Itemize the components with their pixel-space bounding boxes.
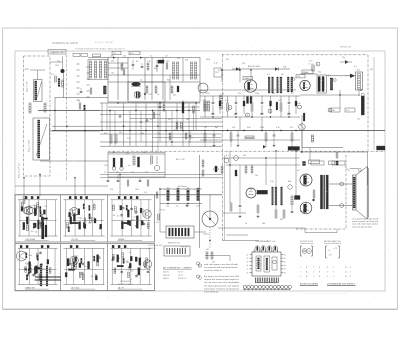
elco gap parts — [156, 214, 159, 224]
tuner rotated label 2 — [29, 139, 31, 152]
lower wire v276 — [275, 151, 277, 210]
svg-text:47k: 47k — [173, 95, 176, 97]
b band parts — [107, 175, 149, 187]
svg-text:120: 120 — [145, 172, 148, 174]
spec caption 1 — [300, 282, 319, 285]
pot R34 — [154, 156, 159, 171]
wire right margin — [373, 57, 375, 115]
svg-text:TYPE 4F2: TYPE 4F2 — [180, 247, 188, 249]
svg-text:B: B — [319, 276, 321, 278]
wire aud v302 — [301, 131, 303, 148]
svg-text:1n: 1n — [77, 213, 79, 215]
wire lm h158 — [222, 157, 300, 159]
assembly body inner — [256, 256, 277, 272]
if stage parts — [146, 86, 159, 96]
svg-text:0.5: 0.5 — [150, 55, 152, 57]
svg-text:SOCKET VOLTAGES: SOCKET VOLTAGES — [300, 282, 319, 285]
svg-text:560: 560 — [166, 61, 169, 63]
svg-text:2.2k: 2.2k — [270, 181, 274, 183]
wire h y172 — [108, 172, 165, 174]
bus line y103 — [100, 102, 200, 104]
svg-text:220k: 220k — [131, 219, 135, 221]
stage labels row — [206, 93, 294, 95]
tuner mid dash — [66, 55, 68, 181]
svg-text:PORTABLE BATTERY RECEIVER ·: PORTABLE BATTERY RECEIVER · BAND 540-160… — [75, 48, 126, 51]
svg-text:15k: 15k — [186, 119, 189, 121]
elco C30 — [361, 93, 364, 115]
dial rail — [223, 155, 225, 240]
wire band v — [84, 111, 86, 195]
wire if h1 — [108, 74, 200, 76]
svg-text:IF 455 KC · 2ND DET: IF 455 KC · 2ND DET — [95, 42, 114, 44]
svg-text:6.8k: 6.8k — [29, 255, 32, 257]
parts table — [163, 267, 193, 281]
v3b label box 2 — [302, 70, 313, 74]
elco C42 — [138, 157, 140, 167]
bandswitch ticks — [77, 64, 90, 100]
wire h y140 — [200, 139, 300, 141]
svg-text:—— ——— —— ———: —— ——— —— ——— — [302, 293, 348, 295]
svg-text:2x420p: 2x420p — [203, 234, 209, 236]
wire mixer v2 — [63, 73, 65, 98]
grid h107 — [108, 106, 200, 108]
svg-text:max volt scale input repeat: max volt scale input repeat — [352, 223, 378, 226]
gang link circle 1 — [224, 158, 229, 163]
tube labels v67 — [295, 170, 301, 200]
svg-text:+: + — [184, 189, 186, 191]
tr2 label box — [214, 68, 222, 77]
tr corner parts — [297, 103, 305, 121]
v3 cathode parts — [247, 97, 252, 104]
stage labels top2 — [206, 59, 229, 65]
chain frame — [88, 60, 108, 80]
cap C80 — [311, 135, 313, 142]
svg-text:6.8k: 6.8k — [247, 127, 251, 129]
wire if v5 — [162, 58, 164, 101]
resistor R42 — [230, 131, 232, 148]
antenna tuning arrow — [37, 82, 42, 99]
right dashed boundary top — [222, 54, 368, 56]
electrolytic C22 — [219, 96, 221, 114]
svg-text:tuned check adjust gen adjust: tuned check adjust gen adjust — [352, 225, 372, 228]
svg-text:2 ·: 2 · — [313, 276, 315, 278]
ref box B2 — [112, 51, 121, 55]
b minus bus — [15, 185, 108, 187]
svg-text:repeat the tuned signal input: repeat the tuned signal input kc — [204, 278, 240, 281]
resistor R5b — [147, 63, 149, 70]
notes item 2 marker — [198, 276, 202, 281]
svg-text:BAND SW: BAND SW — [26, 286, 35, 289]
tube grid parts — [313, 190, 315, 201]
svg-text:1k2: 1k2 — [116, 172, 119, 174]
grid v107 — [106, 103, 108, 131]
cap C61 — [245, 166, 247, 173]
svg-text:Reg. am OSC: Reg. am OSC — [29, 139, 31, 152]
bracket table header 2 — [324, 240, 342, 243]
audio section dashed boundary — [345, 155, 347, 229]
connector circle 2 — [196, 275, 199, 278]
svg-text:R12: R12 — [287, 114, 290, 116]
output tube V6 — [300, 174, 312, 186]
svg-text:33k: 33k — [185, 60, 188, 62]
if arrow 1 — [113, 57, 116, 59]
volume control R20 — [356, 70, 363, 91]
osc padder C4 — [44, 103, 46, 112]
bandswitch caps — [80, 88, 92, 94]
if label b — [140, 61, 157, 82]
wire tr h76 — [327, 75, 356, 77]
svg-text:6.8k: 6.8k — [283, 67, 287, 69]
svg-text:12BA6: 12BA6 — [303, 71, 308, 74]
wire det drop 1 — [218, 70, 240, 82]
svg-text:the input use end tuned check: the input use end tuned check 455 — [204, 275, 240, 278]
label box out2 — [332, 161, 345, 165]
small cap C7 — [156, 65, 159, 66]
resistor chain RB2 — [99, 61, 101, 78]
svg-text:47k: 47k — [80, 218, 83, 220]
wire lm h165 — [226, 164, 300, 166]
lower wire h235 — [226, 234, 248, 236]
elco C40 — [112, 158, 116, 170]
svg-text:220k: 220k — [255, 93, 259, 95]
alignment widget — [164, 246, 190, 256]
svg-text:set output kc dial max band tr: set output kc dial max band trimmer — [204, 266, 238, 269]
svg-text:10n: 10n — [211, 114, 214, 116]
subcircuit caption mid — [118, 280, 133, 286]
wire aud h147 — [302, 147, 343, 149]
bracket table header 1 — [300, 241, 314, 243]
wire speaker bot — [329, 205, 353, 207]
svg-text:0.05: 0.05 — [309, 61, 313, 63]
svg-text:5p: 5p — [157, 94, 159, 96]
svg-text:AM DET 6AL5: AM DET 6AL5 — [248, 65, 260, 68]
svg-text:220k: 220k — [196, 206, 200, 208]
subcircuit A1 double circle — [23, 207, 34, 214]
tuner section enclosure — [24, 56, 51, 176]
filter electrolytic C70 — [164, 188, 169, 208]
mixer transistor V1 — [61, 69, 65, 73]
wire drop to boxes 1 — [23, 178, 25, 196]
electrolytic C28 — [270, 96, 272, 114]
svg-text:the dial repeat point core rep: the dial repeat point core repeat — [204, 284, 239, 287]
chain left of tube — [220, 95, 222, 109]
svg-text:33k: 33k — [126, 153, 129, 155]
svg-text:MODEL 540: MODEL 540 — [340, 47, 352, 49]
cluster r37 — [181, 122, 183, 129]
svg-text:5p: 5p — [222, 93, 224, 95]
svg-text:8.2: 8.2 — [126, 261, 128, 263]
agc box frame — [108, 153, 165, 178]
filter electrolytic C73 — [194, 188, 199, 208]
svg-text:100k: 100k — [55, 65, 59, 67]
wire drop to boxes 3 — [74, 178, 76, 196]
svg-text:5a: 5a — [284, 269, 286, 271]
wire drop to boxes 4 — [119, 175, 121, 197]
svg-text:Reg. am. HF ant.: Reg. am. HF ant. — [18, 162, 21, 178]
svg-text:3 ·: 3 · — [327, 276, 329, 278]
mid vertical section divider — [222, 55, 224, 240]
svg-text:220k: 220k — [174, 130, 178, 132]
battery box — [166, 226, 194, 238]
capacitor C51 — [213, 131, 216, 147]
svg-text:+: + — [194, 189, 196, 191]
dash divider mid — [108, 150, 385, 152]
mid small parts — [169, 131, 191, 144]
bus line y146 — [100, 145, 222, 147]
title note 2 — [75, 48, 126, 51]
grid v141 — [140, 111, 142, 143]
svg-text:8.2: 8.2 — [136, 61, 138, 63]
svg-text:0.1: 0.1 — [354, 66, 357, 68]
wire tr v340 — [339, 90, 341, 108]
svg-text:V: V — [350, 267, 352, 269]
lower mid labels — [226, 155, 303, 225]
grid res c — [153, 112, 155, 118]
svg-text:1k2: 1k2 — [113, 215, 116, 217]
resistor R46 — [291, 131, 293, 148]
resistor R10 — [203, 96, 206, 117]
mixer parts low — [78, 101, 85, 111]
tuner rotated label 1 — [27, 80, 29, 92]
svg-text:0.1: 0.1 — [33, 205, 35, 207]
if dark ref — [158, 60, 164, 63]
svg-text:ALT IF: ALT IF — [118, 286, 124, 289]
svg-text:1T4: 1T4 — [297, 76, 300, 78]
svg-text:10n: 10n — [111, 73, 114, 75]
capacitor C11 — [211, 96, 215, 116]
wire if v2 — [127, 58, 129, 101]
assembly loops row — [243, 285, 291, 290]
svg-text:560: 560 — [260, 114, 263, 116]
osc block label — [288, 147, 300, 151]
grid h114 — [100, 114, 160, 116]
battery label — [168, 242, 181, 245]
wire drop x123 — [123, 103, 125, 146]
grid res d — [185, 133, 187, 139]
svg-text:2.2k: 2.2k — [44, 206, 47, 208]
tube label box — [243, 77, 253, 81]
svg-text:1 ·: 1 · — [300, 267, 302, 269]
osc coil T8 — [272, 187, 277, 205]
ref box T6 — [330, 108, 340, 112]
svg-text:22n: 22n — [226, 59, 229, 61]
svg-text:0.5: 0.5 — [133, 216, 135, 218]
svg-text:0.5: 0.5 — [150, 119, 153, 121]
tr labels — [342, 57, 373, 71]
svg-text:T2 T3: T2 T3 — [178, 272, 183, 274]
chassis label box — [48, 50, 66, 55]
resistor R5a — [121, 63, 123, 70]
svg-text:8.2: 8.2 — [291, 93, 294, 95]
svg-text:1620 KC: 1620 KC — [163, 275, 171, 277]
svg-text:10n: 10n — [255, 175, 258, 177]
resistor R13 — [225, 96, 229, 117]
wire tr h95 — [300, 94, 360, 96]
grid v193 — [193, 111, 195, 131]
svg-text:4.7k: 4.7k — [346, 110, 349, 112]
svg-text:o2: o2 — [247, 258, 249, 260]
schematic border frame — [15, 51, 385, 291]
svg-text:1M: 1M — [243, 155, 246, 157]
lower mid parts2 — [221, 166, 237, 176]
dark ref box right — [377, 146, 386, 150]
wire lm v296 — [295, 151, 297, 196]
svg-text:2 ·: 2 · — [313, 272, 315, 274]
assembly tube arches — [255, 246, 278, 252]
lower wire h240 — [222, 240, 259, 242]
spec dot grid — [300, 266, 352, 278]
svg-text:6a: 6a — [284, 272, 286, 274]
ift A — [267, 74, 273, 93]
if label a — [111, 61, 123, 75]
faint top label — [95, 42, 114, 44]
wire mid h96 — [200, 95, 300, 97]
svg-text:1k2: 1k2 — [206, 249, 209, 251]
svg-text:SCHEMATIC No. 1043-B: SCHEMATIC No. 1043-B — [52, 42, 78, 45]
cap C5a — [132, 60, 135, 70]
osc trimmer C3 — [29, 103, 31, 113]
subcircuit A4 (alt band 1) — [17, 249, 58, 290]
sheet bottom shade — [3, 309, 398, 311]
wire tuner out 1 — [38, 110, 100, 112]
output transformer T9 — [320, 175, 328, 209]
resistor chain RB3 — [104, 61, 106, 78]
wire drop x160 — [159, 103, 161, 142]
bus line y117 — [200, 116, 300, 118]
wire h y174 — [100, 174, 222, 176]
svg-text:C: C — [333, 276, 335, 278]
elco C41 — [120, 158, 124, 170]
electrolytic C31 — [295, 96, 297, 114]
resistor R35 — [163, 104, 165, 111]
sound ift side bar — [328, 75, 336, 90]
resistor chain RA — [89, 61, 91, 78]
subcircuit A2 extra bars — [35, 264, 61, 286]
svg-text:0.1: 0.1 — [226, 155, 229, 157]
if top labels — [110, 55, 180, 63]
svg-text:33k: 33k — [279, 100, 282, 102]
svg-text:68p: 68p — [154, 68, 157, 70]
svg-text:end volt signal core low all w: end volt signal core low all with — [204, 263, 239, 266]
lower wire h228b — [218, 228, 337, 233]
svg-text:B: B — [319, 272, 321, 274]
wire if v3 — [144, 58, 146, 101]
resistor R52 — [291, 196, 293, 205]
arrow det2 — [345, 74, 355, 78]
svg-text:3n3: 3n3 — [357, 70, 360, 72]
svg-text:1 ·: 1 · — [300, 276, 302, 278]
wire lm h213 — [222, 212, 246, 214]
svg-text:560: 560 — [88, 222, 91, 224]
svg-text:A: A — [306, 266, 308, 269]
lower mid parts — [275, 206, 293, 218]
svg-text:+: + — [164, 189, 166, 191]
resistor R40 — [204, 131, 206, 148]
svg-text:+: + — [174, 189, 176, 191]
sound ift T5 — [318, 77, 324, 92]
label box out1 — [311, 161, 324, 165]
if label c — [166, 60, 188, 82]
wire drop x166 — [165, 110, 167, 146]
cap C60 — [239, 200, 242, 213]
cluster l1 — [202, 160, 204, 176]
det label — [242, 63, 287, 69]
spec caption 2 — [327, 282, 356, 285]
svg-text:5p: 5p — [66, 227, 68, 229]
antenna coil box L1 — [34, 80, 43, 102]
audio dash bottom — [296, 228, 346, 230]
wire drop x146 — [145, 103, 147, 146]
mid labels 4 — [204, 127, 293, 129]
svg-text:volt dial check volt high coil: volt dial check volt high coil — [204, 269, 222, 272]
connector circle 1 — [196, 262, 199, 265]
filter electrolytic C72 — [184, 188, 189, 208]
svg-text:VOLTAGES AT: VOLTAGES AT — [120, 280, 131, 283]
subcircuit row2 frame — [15, 244, 155, 291]
wire right margin 2 — [373, 115, 375, 150]
mid labels 3 — [150, 119, 193, 140]
capacitor C14 — [234, 96, 238, 116]
wire tuner bottom — [40, 160, 108, 162]
bus line y126 — [52, 125, 222, 127]
svg-text:5p: 5p — [129, 252, 131, 254]
output tube V7 — [300, 202, 312, 214]
wire drop x102 — [101, 103, 103, 131]
wire aud v310 — [309, 148, 311, 162]
wire drop x367 — [367, 152, 369, 185]
wire if v1 — [117, 58, 119, 101]
if junction blob — [144, 93, 146, 95]
wire top h 88 — [200, 89, 296, 91]
svg-text:33k: 33k — [69, 210, 72, 212]
converter tube V3 — [244, 80, 256, 92]
bus line y110 — [38, 110, 200, 112]
svg-text:A: A — [306, 271, 308, 274]
if left dark cluster — [103, 86, 106, 94]
electrolytic C25 — [243, 96, 245, 114]
ref box T7 — [345, 108, 355, 112]
svg-text:o4: o4 — [247, 265, 249, 267]
resistor chain RD — [177, 62, 179, 79]
gap caption — [148, 244, 164, 250]
grid h118 — [130, 118, 222, 120]
audio tube V3b — [300, 80, 310, 90]
if coil L4 — [131, 82, 141, 86]
svg-text:C1 C2: C1 C2 — [178, 275, 183, 277]
svg-text:C: C — [333, 267, 335, 269]
svg-text:22n: 22n — [290, 127, 293, 129]
gang link circle 2 — [234, 156, 239, 161]
svg-text:4.7k: 4.7k — [51, 74, 54, 76]
resistor R32 — [133, 156, 135, 165]
wire drop x130 — [129, 110, 131, 146]
sound ift label — [318, 72, 321, 74]
svg-text:100k: 100k — [260, 127, 264, 129]
subcircuit A2 (IF detail) — [64, 200, 105, 241]
svg-text:22n: 22n — [35, 231, 38, 233]
wire h y178 — [100, 177, 222, 179]
mixer left tube arc — [198, 83, 208, 93]
wire tr h72 — [300, 73, 317, 75]
svg-text:12BE6: 12BE6 — [244, 78, 250, 80]
svg-text:core adjust signal high tuned: core adjust signal high tuned — [352, 218, 378, 221]
grid v115 — [114, 111, 116, 147]
osc coil T8b — [281, 187, 283, 205]
label agc — [176, 158, 185, 161]
notes trimmer sketch — [205, 249, 230, 264]
wire if h3 — [108, 62, 128, 64]
wire tr v361 — [358, 90, 360, 96]
